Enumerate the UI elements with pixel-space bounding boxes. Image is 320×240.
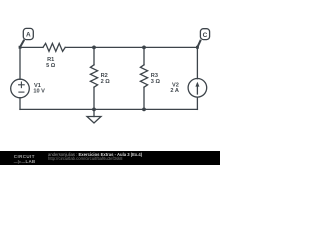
svg-text:3 Ω: 3 Ω xyxy=(151,79,161,85)
watermark bar xyxy=(0,151,220,165)
wire left rail lower xyxy=(19,98,21,110)
label R1 value xyxy=(33,57,179,95)
wire top rail right of R1 xyxy=(65,46,197,48)
watermark text line 1 xyxy=(48,153,142,157)
V2 arrowhead xyxy=(195,82,199,87)
svg-text:C: C xyxy=(203,32,208,39)
wire right rail lower xyxy=(196,97,198,109)
ground xyxy=(93,109,95,116)
wire left rail upper xyxy=(19,47,21,79)
svg-text:2 Ω: 2 Ω xyxy=(101,79,111,85)
resistor R3 xyxy=(140,65,147,87)
svg-text:R2: R2 xyxy=(101,73,108,79)
node A flag xyxy=(19,28,34,48)
svg-text:2 A: 2 A xyxy=(170,88,179,94)
node junction R3 top xyxy=(142,46,146,50)
V2 arrow xyxy=(196,84,198,94)
voltage source V1 xyxy=(11,79,30,98)
resistor R2 xyxy=(90,65,97,87)
wire R2 top stub xyxy=(93,47,95,64)
watermark text line 2 xyxy=(48,157,122,161)
node junction R3 bottom xyxy=(142,108,146,112)
svg-text:R3: R3 xyxy=(151,73,158,79)
node junction R2 bottom / ground xyxy=(92,108,96,112)
CircuitLab logo xyxy=(14,155,36,164)
svg-text:10 V: 10 V xyxy=(33,88,45,94)
resistor R1 xyxy=(43,43,65,51)
svg-text:5 Ω: 5 Ω xyxy=(46,63,56,69)
V1 plus symbol xyxy=(19,84,25,86)
wire bottom rail xyxy=(20,108,197,110)
wire R2 bottom stub xyxy=(93,87,95,109)
node junction R2 top xyxy=(92,46,96,50)
V1 minus symbol xyxy=(19,91,24,93)
node C flag xyxy=(196,29,210,49)
wire right rail upper xyxy=(196,47,198,78)
svg-text:R1: R1 xyxy=(47,57,54,63)
wire R3 bottom stub xyxy=(143,87,145,109)
svg-text:A: A xyxy=(26,32,31,39)
wire top rail left stub xyxy=(20,46,43,48)
wire R3 top stub xyxy=(143,47,145,64)
current source V2 xyxy=(188,79,207,98)
